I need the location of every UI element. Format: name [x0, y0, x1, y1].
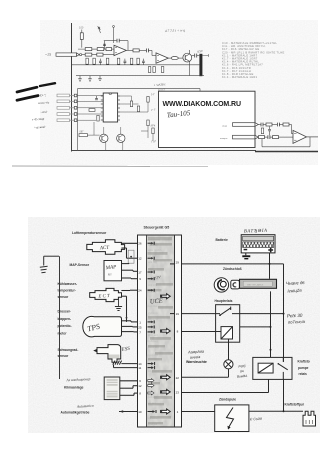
label Hauptrelais [215, 299, 233, 303]
pin 23 block arrow [161, 389, 180, 394]
mid rail wire [72, 64, 200, 66]
frame bottom wire [72, 151, 319, 152]
block arrow mid [161, 294, 171, 299]
wire battery plus down [269, 253, 271, 279]
wire ACT pin26 [121, 242, 137, 244]
handwriting automatico [76, 404, 94, 409]
handwriting rele 30 potencia [287, 313, 306, 325]
pin 24 [138, 289, 154, 293]
input wire W3 [57, 107, 74, 110]
resistor R18 [137, 106, 139, 112]
ECU interior mottle [147, 236, 175, 427]
svg-text:·-моні·: ·-моні· [40, 111, 48, 114]
wire relay to lamp [228, 339, 230, 360]
node label ~15 handwriting [45, 52, 52, 57]
power terminal V- [113, 26, 115, 43]
ECU U5 Steuergerät G5 box [138, 235, 182, 427]
capacitor C8 [95, 96, 98, 100]
svg-text:кивцим: кивцим [220, 137, 228, 140]
svg-text:Чнаνє дє: Чнаνє дє [286, 280, 306, 286]
svg-text:Automatikgetriebe: Automatikgetriebe [61, 411, 90, 415]
resistor R2 [78, 48, 97, 51]
label Schwungradsensor [58, 348, 79, 358]
inner box top wire [78, 89, 200, 92]
handwriting ar condicionado [65, 377, 90, 382]
resistor R16 [97, 115, 99, 121]
label Zündschloß [223, 267, 242, 271]
resistor R29 [97, 53, 103, 56]
ground chassis left [40, 256, 59, 273]
svg-text:Steuergerät G5: Steuergerät G5 [144, 226, 170, 230]
svg-text:22: 22 [176, 376, 180, 380]
svg-text:sensor: sensor [58, 295, 70, 299]
label Batterie [216, 238, 228, 242]
pad P3 [74, 107, 103, 110]
IC U3 [101, 93, 120, 122]
resistor R17 [130, 101, 132, 107]
wire lamp to pin22 [182, 369, 229, 377]
ground G2 [88, 76, 92, 82]
resistor R14 [161, 67, 163, 73]
resistor R30 [106, 48, 112, 51]
svg-text:100: 100 [79, 26, 84, 30]
wire switch to relay feed [270, 291, 272, 357]
port label handwriting S17c [150, 140, 156, 144]
pin 1R block arrow [161, 409, 179, 414]
sensor ECT coolant temperature [90, 288, 122, 301]
wire label handwriting 3 [40, 111, 48, 114]
wire label handwriting 2 [38, 101, 50, 105]
wire U1 output [126, 49, 133, 51]
wire label handwriting 4 [32, 117, 45, 122]
resistor R21 [152, 128, 154, 134]
sensor MAP [104, 261, 122, 281]
svg-text:Batterie: Batterie [216, 238, 228, 242]
svg-text:MAP: MAP [104, 264, 117, 271]
svg-text:мици: мици [221, 124, 228, 127]
wire pin1 to coil [182, 411, 215, 413]
wire Automatik pin10 arrow [119, 410, 137, 413]
wire AC pin12 [120, 386, 138, 389]
label Lufttemperatursensor [72, 231, 107, 235]
resistor R1 [79, 26, 84, 48]
input wire W2 [57, 100, 74, 103]
svg-text:17: 17 [138, 270, 142, 274]
separator rule [12, 165, 208, 168]
svg-text:temperatur-: temperatur- [58, 289, 76, 293]
capacitor C1 [103, 41, 106, 49]
sensor ACT air temperature [87, 240, 125, 254]
svg-text:Kraftstoffpur: Kraftstoffpur [285, 403, 305, 407]
resistor R15 [89, 109, 95, 112]
svg-text:ΒомΒΑ: ΒомΒΑ [237, 374, 248, 379]
ignition coil T1 [215, 405, 249, 432]
resistor R4 [97, 48, 114, 51]
value label handwriting 4.7 5W [165, 28, 185, 33]
transistor Q1 [183, 50, 192, 76]
svg-text:sensor: sensor [58, 354, 70, 358]
wire IC right net [120, 96, 148, 112]
wire U4 feedback [262, 137, 310, 147]
capacitor C9 [258, 123, 266, 127]
svg-text:E C T: E C T [97, 294, 110, 300]
label Steuergerät G5 [144, 226, 170, 230]
svg-text:иат ие двъх: иат ие двъх [247, 282, 264, 286]
transistor Q2 [100, 127, 108, 151]
resistor R5 [133, 49, 146, 52]
svg-text:MAP-Sensor: MAP-Sensor [70, 263, 90, 267]
handwriting rele da bomba [237, 364, 248, 379]
wire input row [82, 54, 85, 56]
handwriting bobina [250, 417, 262, 422]
svg-text:Schwungrad-: Schwungrad- [58, 348, 79, 352]
value handwriting above box [154, 82, 166, 91]
wire coil to feed [240, 326, 271, 328]
label MAP-Sensor [70, 263, 90, 267]
svg-text:4 7 7.5 i + w q: 4 7 7.5 i + w q [165, 28, 185, 33]
svg-text:K1.4 - MATERALE 1HR1: K1.4 - MATERALE 1HR1 [222, 75, 258, 79]
left bus wire [59, 256, 61, 379]
input wire W4 [57, 113, 74, 116]
resistor R20 [147, 120, 149, 126]
marker scribble 1 [17, 83, 55, 92]
port label handwriting LPU [149, 124, 156, 128]
pad P5 [74, 119, 96, 122]
svg-text:Kühlwasser-: Kühlwasser- [58, 282, 78, 286]
svg-text:ІгніцΖе: ІгніцΖе [287, 288, 302, 294]
relay K2 fuel pump [253, 357, 292, 379]
wire TPS pin25 [122, 325, 138, 328]
bus right vertical [283, 264, 285, 362]
wire ECT return [121, 296, 127, 322]
svg-text:potentio-: potentio- [58, 324, 72, 328]
capacitor C10 [277, 123, 283, 127]
svg-text:Ρєℓє 30: Ρєℓє 30 [287, 313, 303, 319]
transistor Q3 [117, 127, 125, 151]
battery BT1 [241, 235, 275, 253]
capacitor C4 [192, 54, 200, 58]
svg-text:19: 19 [176, 312, 180, 316]
svg-text:+цг моні·: +цг моні· [34, 125, 46, 130]
capacitor C7 [142, 59, 145, 65]
connector J2 [221, 123, 258, 128]
resistor R3 [85, 53, 114, 56]
pin 25 [138, 325, 154, 329]
svg-text:Drossel-: Drossel- [58, 309, 71, 313]
label Klimaanlage [64, 386, 84, 390]
input wire W1 [57, 94, 74, 97]
pin 29 [170, 260, 179, 264]
op-amp U4 [293, 130, 307, 143]
twisted pair hatch [113, 361, 122, 365]
svg-text:ACT: ACT [99, 246, 111, 252]
svg-text:12: 12 [138, 257, 142, 261]
wire pin19 row [182, 313, 284, 315]
svg-text:10: 10 [138, 410, 142, 414]
pin 1 [139, 320, 154, 324]
power terminal V+ [98, 26, 101, 33]
watermark text WWW.DIAKOM.COM.RU [163, 101, 241, 108]
svg-text:klappen-: klappen- [58, 317, 72, 321]
wire ECT pin24 [121, 289, 137, 291]
handwriting BATERIA [244, 228, 268, 234]
pin 9 [139, 277, 154, 281]
watermark box [159, 91, 256, 147]
op-amp U1 [114, 45, 126, 55]
pad P1 [74, 94, 103, 97]
svg-text:ΡєℓЄ: ΡєℓЄ [238, 364, 246, 369]
pin 17 [138, 270, 154, 274]
capacitor C5 [99, 59, 102, 65]
pin 7 [139, 330, 154, 334]
svg-text:Zündschloß: Zündschloß [223, 267, 242, 271]
svg-text:12: 12 [138, 384, 142, 388]
resistor R13 [153, 67, 155, 73]
wire label Cout handwriting [40, 93, 47, 97]
handwriting 3V [154, 275, 162, 280]
svg-text:29: 29 [176, 260, 180, 264]
resistor R25 [259, 136, 268, 139]
handwriting UCE [150, 298, 163, 306]
svg-text:Γи7: Γи7 [150, 140, 156, 144]
handwriting ESS [120, 347, 130, 354]
AC connector box [104, 377, 120, 400]
label Kraftstoffpur [285, 403, 305, 407]
ignition switch S1 [214, 278, 276, 292]
svg-text:orastι·•ди: orastι·•ди [38, 101, 50, 105]
port label handwriting S17a [151, 93, 156, 96]
parts list text block [222, 41, 285, 79]
svg-text:5·Γ: 5·Γ [151, 93, 156, 96]
pin 26 [138, 242, 154, 246]
frame left edge wire [71, 23, 73, 152]
relay K1 Hauptrelais [216, 305, 240, 343]
svg-text:Zündspule: Zündspule [219, 398, 236, 402]
pin 10 [138, 410, 156, 414]
label Warnleuchte [186, 360, 207, 364]
wire label handwriting 5 [34, 125, 46, 130]
svg-text:Hauptrelais: Hauptrelais [215, 299, 233, 303]
svg-text:25: 25 [138, 325, 142, 329]
capacitor C2 feedback [104, 39, 128, 51]
pin 19 [170, 312, 179, 316]
junction connector block [128, 250, 134, 263]
wire MAP w1 [122, 262, 130, 265]
resistor R24 [283, 123, 293, 134]
ground rail wire [76, 75, 204, 77]
wire pin29 to bus [182, 263, 284, 265]
wire AC pin8 [120, 393, 138, 395]
inner box left wire [77, 89, 79, 151]
resistor R11 [137, 58, 139, 64]
pin 22 block arrow [161, 375, 180, 380]
fuel pump M1 [303, 411, 316, 426]
svg-text:+3V′: +3V′ [154, 275, 162, 280]
svg-text:C•⁻;: C•⁻; [40, 93, 47, 97]
label Kühlwassertemperatursensor [58, 282, 78, 299]
pin 6 [139, 379, 154, 383]
node marker bar (dark) [199, 54, 202, 76]
connector J3 [220, 135, 258, 140]
sensor ESS flywheel [93, 345, 121, 363]
pin 11 [138, 366, 154, 370]
pin 12b [138, 384, 154, 388]
capacitor C12 vertical [268, 126, 271, 135]
resistor R8 [106, 58, 108, 64]
sensor TPS throttle potentiometer [83, 316, 122, 336]
wire bias net [87, 122, 99, 135]
resistor R9 [117, 58, 119, 64]
wire TPS pin7 [122, 331, 138, 333]
fuse F1 [168, 57, 183, 60]
svg-text:UCE: UCE [150, 298, 163, 306]
wire pin23 to pump relay coil [182, 379, 269, 392]
handwriting chave de ignição [286, 280, 306, 294]
wire U4 output [307, 136, 319, 138]
resistor R10 [130, 58, 132, 64]
label Zündspule [219, 398, 236, 402]
ground battery [242, 253, 250, 260]
lamp warning [224, 360, 233, 369]
pin 14 [138, 362, 154, 366]
svg-text:поΤєнсіа: поΤєнсіа [288, 319, 306, 325]
ground G1 [78, 76, 82, 82]
wire MAP w3 pin9 [122, 277, 138, 280]
svg-text:24: 24 [138, 289, 142, 293]
op-amp U2 [156, 53, 168, 63]
wire after bar [202, 54, 208, 57]
wire pump relay out [283, 379, 285, 412]
svg-text:Warnleuchte: Warnleuchte [186, 360, 207, 364]
label TAU-105 handwriting [166, 109, 191, 119]
resistor R26 [273, 136, 294, 139]
svg-text:Klimaanlage: Klimaanlage [64, 386, 84, 390]
capacitor C11 [268, 135, 273, 139]
svg-text:23: 23 [176, 391, 180, 395]
label Automatikgetriebe [61, 411, 90, 415]
svg-text:г יмΑΤΡ.ℓ: г יмΑΤΡ.ℓ [154, 82, 166, 87]
pad P4 [74, 113, 103, 116]
svg-text:26: 26 [138, 242, 142, 246]
wire AC pin6 [120, 380, 138, 382]
input connector J1 [56, 53, 82, 56]
wire right column net [141, 126, 153, 141]
wire ESS pin11 [114, 365, 138, 368]
svg-text:meter: meter [58, 332, 68, 336]
svg-text:relais: relais [299, 372, 308, 376]
label Drosselklappenpotentiometer [58, 309, 72, 335]
svg-text:087: 087 [80, 131, 85, 134]
node label ~15V handwriting [197, 49, 204, 54]
marker scribble 2 [17, 96, 38, 101]
pin 8R block arrow [161, 329, 179, 334]
ECU interior ghost text [148, 238, 162, 427]
wire ACT pin12 [121, 248, 137, 258]
resistor R27 vertical [261, 128, 263, 134]
resistor R12 [148, 67, 150, 73]
resistor R19 [147, 97, 149, 103]
svg-text:Γ·7: Γ·7 [150, 109, 156, 113]
label Kraftstoffpumpenrelais [298, 359, 310, 376]
capacitor C6 [124, 59, 127, 65]
svg-text:11: 11 [138, 366, 141, 370]
svg-text:Kraftsto: Kraftsto [298, 359, 310, 363]
ground ECT [115, 299, 122, 310]
svg-text:Є СоЈіℓі: Є СоЈіℓі [250, 417, 262, 422]
wire MAP w2 pin17 [122, 270, 138, 271]
svg-text:~15: ~15 [45, 52, 52, 57]
pin 8L [139, 391, 154, 395]
handwriting lampada averia [187, 350, 204, 360]
pin 12 [138, 257, 154, 261]
resistor R6 [86, 58, 88, 64]
wire to U2 [152, 50, 156, 55]
wire ESS pin14 [121, 363, 137, 365]
svg-text:ΒΑΤЂΘІΑ: ΒΑΤЂΘІΑ [244, 228, 268, 234]
wire TPS pin1 [122, 321, 138, 322]
wire pin8 to relay coil [182, 331, 222, 333]
capacitor C3 [146, 49, 152, 53]
pad P2 [74, 100, 103, 103]
svg-text:pumpe: pumpe [298, 366, 309, 370]
svg-text:дΑ: дΑ [240, 369, 244, 373]
svg-text:Lufttemperatursensor: Lufttemperatursensor [72, 231, 107, 235]
input wire W5 [57, 119, 74, 122]
resistor R22 [79, 131, 87, 137]
resistor R23 [266, 123, 277, 126]
wire coil to pump [249, 410, 303, 412]
port label handwriting S17b [150, 109, 156, 113]
resistor R7 [93, 58, 95, 64]
svg-text:WWW.DIAKOM.COM.RU: WWW.DIAKOM.COM.RU [163, 101, 241, 108]
ground G3 [98, 76, 102, 81]
